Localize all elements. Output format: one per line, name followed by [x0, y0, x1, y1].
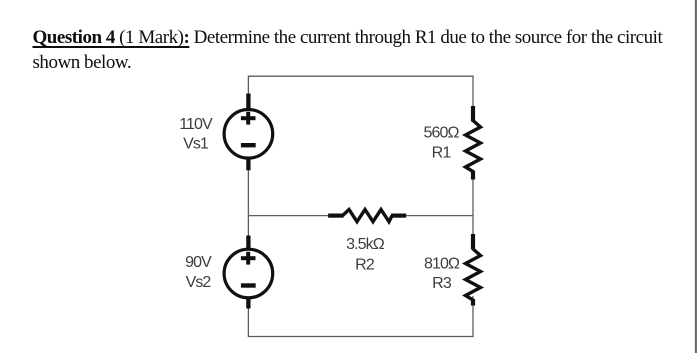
wire: middle rail left segment: [248, 215, 344, 217]
wire: right rail upper segment: [472, 76, 474, 122]
label Vs1: [183, 136, 209, 153]
label Vs2: [186, 274, 212, 291]
label 3.5kohm: [346, 236, 385, 253]
resistor R3: [466, 234, 481, 306]
voltage source Vs1: [224, 94, 273, 171]
voltage source Vs2: [224, 236, 273, 309]
label R2: [355, 257, 375, 274]
wire: right rail middle segment: [472, 171, 474, 250]
wire: left rail middle segment: [247, 169, 249, 237]
page edge line: [695, 0, 697, 353]
svg-text:110V: 110V: [179, 116, 213, 133]
svg-text:560Ω: 560Ω: [423, 125, 459, 142]
resistor R2: [328, 210, 406, 222]
label 90V: [185, 254, 212, 271]
label R1: [432, 145, 452, 162]
resistor R1: [466, 106, 481, 180]
wire: bottom rail: [248, 336, 473, 338]
svg-text:R2: R2: [355, 257, 375, 274]
wire: top rail: [248, 75, 473, 77]
question title text: [33, 25, 700, 76]
svg-text:Vs2: Vs2: [186, 274, 212, 291]
svg-text:810Ω: 810Ω: [424, 256, 460, 273]
wire: right rail lower segment: [472, 296, 474, 337]
label 560ohm: [423, 125, 459, 142]
label 110V: [179, 116, 213, 133]
svg-text:R1: R1: [432, 145, 452, 162]
svg-text:90V: 90V: [185, 254, 212, 271]
svg-text:R3: R3: [432, 275, 452, 292]
wire: middle rail right segment: [391, 215, 473, 217]
svg-text:Vs1: Vs1: [183, 136, 209, 153]
label 810ohm: [424, 256, 460, 273]
svg-text:3.5kΩ: 3.5kΩ: [346, 236, 385, 253]
wire: left rail lower segment: [247, 307, 249, 337]
label R3: [432, 275, 452, 292]
wire: left rail upper segment: [247, 76, 249, 96]
